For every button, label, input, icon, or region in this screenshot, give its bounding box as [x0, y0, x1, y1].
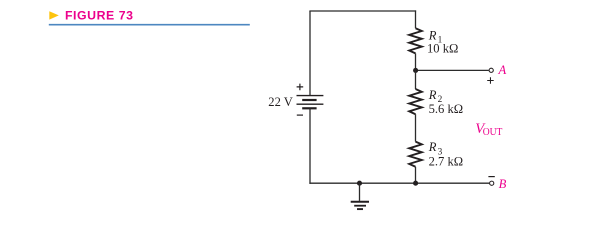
label A	[498, 63, 507, 77]
svg-text:10 kΩ: 10 kΩ	[427, 42, 458, 56]
terminal A open circle	[489, 68, 493, 72]
wire: bottom horizontal	[309, 182, 489, 184]
ground node junction dot	[357, 181, 362, 186]
value label 5.6 kOhm	[429, 102, 464, 116]
plus sign at battery top	[297, 84, 304, 91]
terminal B open circle	[490, 181, 494, 185]
svg-text:22 V: 22 V	[268, 95, 293, 109]
figure caption text FIGURE 73	[65, 9, 134, 23]
minus sign at battery bottom	[297, 114, 303, 116]
value label 2.7 kOhm	[429, 155, 464, 169]
figure caption marker triangle	[49, 11, 59, 19]
wire: node A to terminal A	[416, 69, 489, 71]
wire: ground stem	[359, 183, 361, 201]
wire: top-right corner down to R1	[415, 10, 417, 28]
bottom node junction dot at R3	[413, 181, 418, 186]
resistor R2	[409, 89, 422, 114]
svg-text:FIGURE 73: FIGURE 73	[65, 9, 134, 23]
wire: top horizontal	[309, 10, 416, 12]
label R2	[428, 88, 443, 105]
wire: R2 to R3	[415, 114, 417, 141]
plus sign at terminal A	[487, 77, 494, 83]
svg-text:R: R	[428, 88, 437, 102]
value label 10 kOhm	[427, 42, 458, 56]
resistor R3	[409, 142, 422, 167]
svg-text:R: R	[428, 140, 437, 154]
svg-text:5.6 kΩ: 5.6 kΩ	[429, 102, 464, 116]
wire: R1 to node A junction	[415, 53, 417, 70]
node A junction dot	[413, 68, 418, 73]
value label 22 V	[268, 95, 293, 109]
resistor R1	[409, 28, 422, 53]
label B	[499, 177, 507, 191]
wire: R3 to bottom node	[415, 167, 417, 183]
svg-text:A: A	[498, 63, 507, 77]
label R3	[428, 140, 443, 157]
svg-text:OUT: OUT	[483, 126, 503, 138]
svg-text:R: R	[428, 28, 437, 42]
wire: battery negative terminal down to bottom-left corner	[309, 108, 311, 184]
svg-text:2.7 kΩ: 2.7 kΩ	[429, 155, 464, 169]
caption underline rule	[49, 24, 250, 26]
svg-text:B: B	[499, 177, 507, 191]
wire: battery positive terminal up to top-left corner	[309, 11, 311, 96]
battery V source 22 V: plates	[297, 96, 324, 109]
minus sign above terminal B	[488, 176, 494, 178]
ground symbol	[351, 202, 369, 209]
label VOUT	[475, 121, 502, 138]
wire: node A down to R2	[415, 70, 417, 89]
label R1	[428, 28, 443, 45]
